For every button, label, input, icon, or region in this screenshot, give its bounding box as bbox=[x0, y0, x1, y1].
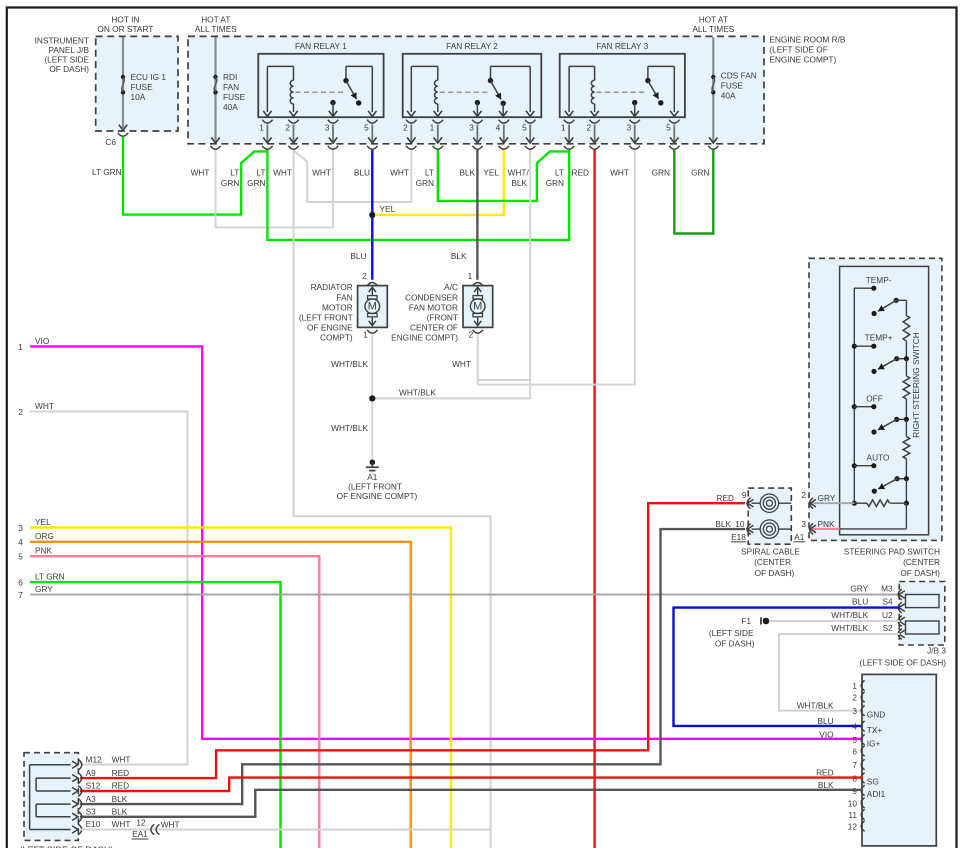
wire BLU S4 to TX+ pin4 bbox=[674, 608, 900, 726]
switch arm TEMP- bbox=[894, 298, 899, 303]
svg-text:(LEFT SIDE OF DASH): (LEFT SIDE OF DASH) bbox=[859, 658, 946, 668]
svg-text:M3: M3 bbox=[881, 583, 893, 593]
pin 3 stub at x=333 bbox=[328, 120, 338, 123]
svg-text:WHT/BLK: WHT/BLK bbox=[331, 359, 368, 369]
svg-text:GRN: GRN bbox=[221, 178, 239, 188]
svg-text:J/B 3: J/B 3 bbox=[927, 646, 946, 656]
pin 1 stub at x=267.4 bbox=[262, 120, 272, 123]
svg-text:WHT: WHT bbox=[273, 168, 292, 178]
wire WHT A/C pin2 branch to relay2 pin5 vertical bbox=[478, 379, 531, 381]
pin 2 stub at x=594.6 bbox=[589, 120, 599, 123]
svg-text:INSTRUMENT: INSTRUMENT bbox=[35, 36, 89, 46]
svg-text:GRY: GRY bbox=[35, 584, 53, 594]
connector M12 bbox=[72, 761, 78, 768]
svg-text:LT GRN: LT GRN bbox=[35, 572, 65, 582]
svg-text:40A: 40A bbox=[223, 102, 238, 112]
svg-text:PNK: PNK bbox=[818, 519, 836, 529]
pin 7 of ECU connector bbox=[861, 759, 864, 769]
svg-text:VIO: VIO bbox=[819, 729, 834, 739]
wire VIO 1 to IG+ pin5 bbox=[30, 346, 863, 738]
connector A3 bbox=[72, 801, 78, 808]
svg-text:2: 2 bbox=[285, 122, 290, 132]
svg-text:TEMP+: TEMP+ bbox=[865, 332, 893, 342]
pin 5 stub at x=372.3 bbox=[367, 120, 377, 123]
connector 3 PNK on steering box bbox=[810, 525, 816, 533]
wire PNK steering connector 3 bbox=[812, 528, 840, 530]
pin arrow CDS to engine box edge bbox=[709, 137, 717, 143]
pin 2 stub at x=411.3 bbox=[406, 120, 416, 123]
connector S12 bbox=[72, 787, 78, 794]
steering pad switch outer box bbox=[809, 258, 942, 540]
switch arm AUTO bbox=[895, 476, 900, 481]
svg-text:BLK: BLK bbox=[112, 807, 128, 817]
svg-text:3: 3 bbox=[18, 523, 23, 533]
svg-text:A3: A3 bbox=[86, 794, 97, 804]
svg-text:YEL: YEL bbox=[380, 204, 396, 214]
svg-text:ECU IG 1: ECU IG 1 bbox=[131, 72, 167, 82]
wire RED relay3 pin2 down off page bbox=[593, 150, 595, 848]
svg-text:1: 1 bbox=[430, 122, 435, 132]
pin 3 stub at x=634.7 bbox=[630, 120, 640, 123]
pin 1 stub at x=569.1 bbox=[564, 120, 574, 123]
svg-text:RED: RED bbox=[716, 493, 734, 503]
wire WHT/BLK relay2 pin5 to motor ground junction bbox=[375, 150, 530, 398]
pin 12 of ECU connector bbox=[861, 821, 864, 831]
wire BLK relay2 pin3 to A/C condenser fan motor bbox=[476, 150, 478, 280]
wire RED S12 to SG pin8 bbox=[80, 778, 863, 791]
svg-text:FAN RELAY 1: FAN RELAY 1 bbox=[295, 41, 347, 51]
svg-text:GRN: GRN bbox=[691, 168, 709, 178]
wire E10 WHT to EA1 and relay1 pin2 route bbox=[80, 829, 491, 831]
switch rail bbox=[853, 288, 855, 503]
noise filter F1 bbox=[763, 618, 770, 625]
pin arrow RDI to engine box edge bbox=[211, 137, 219, 143]
fuse ECU IG 1 10A bbox=[121, 75, 125, 79]
TEMP+ contact row bbox=[852, 344, 857, 349]
svg-text:TX+: TX+ bbox=[867, 725, 883, 735]
wire HOT IN feed bbox=[122, 37, 124, 128]
svg-text:ENGINE ROOM R/B: ENGINE ROOM R/B bbox=[769, 35, 846, 45]
pin 5 stub at x=530.2 bbox=[525, 120, 535, 123]
svg-text:6: 6 bbox=[18, 578, 23, 588]
svg-text:PNK: PNK bbox=[35, 546, 53, 556]
svg-text:BLK: BLK bbox=[112, 794, 128, 804]
PNK row inside box to chain bbox=[840, 528, 907, 530]
wire WHT from RDI fuse to relay1 pin3 bbox=[216, 150, 333, 227]
svg-text:ALL TIMES: ALL TIMES bbox=[195, 24, 237, 34]
svg-text:LT: LT bbox=[555, 168, 564, 178]
wire WHT/BLK S2 to GND pin3 bbox=[779, 634, 900, 711]
bottom row with resistor to GRY connector bbox=[852, 501, 857, 506]
svg-text:CENTER OF: CENTER OF bbox=[410, 323, 458, 333]
wire LT GRN relay1 pin1 to relay3 pin1 bbox=[267, 150, 569, 240]
svg-text:3: 3 bbox=[852, 706, 857, 716]
relay FAN RELAY 1 outline bbox=[258, 54, 383, 117]
wire YEL 3 down off page bbox=[30, 528, 451, 848]
relay FAN RELAY 1 dashed link bbox=[296, 91, 345, 93]
svg-text:1: 1 bbox=[18, 342, 23, 352]
svg-text:2: 2 bbox=[403, 122, 408, 132]
bus bar left (M12-E10) bbox=[29, 765, 31, 830]
spiral cable box bbox=[748, 488, 791, 544]
relay FAN RELAY 3 switch bbox=[647, 66, 649, 80]
svg-text:(LEFT FRONT: (LEFT FRONT bbox=[348, 481, 402, 491]
svg-text:S12: S12 bbox=[86, 781, 101, 791]
TEMP- contact row bbox=[854, 287, 874, 289]
svg-text:BLU: BLU bbox=[817, 716, 833, 726]
svg-text:RIGHT STEERING SWITCH: RIGHT STEERING SWITCH bbox=[911, 332, 921, 437]
wire WHT relay3 pin3 to A/C motor branch bbox=[478, 150, 635, 385]
bus bar A3-S3 bbox=[35, 804, 37, 817]
connector S3 bbox=[72, 813, 78, 820]
svg-text:LT: LT bbox=[425, 168, 434, 178]
svg-text:FUSE: FUSE bbox=[223, 92, 246, 102]
switch arm OFF bbox=[894, 417, 899, 422]
relay FAN RELAY 1 fixed contact bbox=[330, 100, 335, 105]
svg-text:WHT/BLK: WHT/BLK bbox=[399, 387, 436, 397]
engine room R/B box bbox=[188, 36, 764, 143]
svg-text:OF DASH): OF DASH) bbox=[755, 568, 795, 578]
svg-text:VIO: VIO bbox=[35, 336, 50, 346]
svg-text:6: 6 bbox=[852, 746, 857, 756]
switch arm TEMP+ bbox=[894, 356, 899, 361]
junction dot BLU/YEL bbox=[369, 212, 375, 218]
resistor chain bbox=[905, 300, 907, 315]
relay/junction box (bottom left) bbox=[24, 753, 78, 841]
svg-text:CDS FAN: CDS FAN bbox=[721, 71, 757, 81]
svg-text:GND: GND bbox=[867, 709, 885, 719]
svg-text:OFF: OFF bbox=[866, 394, 883, 404]
svg-text:WHT: WHT bbox=[161, 819, 180, 829]
svg-text:7: 7 bbox=[18, 590, 23, 600]
svg-text:BLU: BLU bbox=[350, 251, 366, 261]
svg-text:12: 12 bbox=[136, 818, 146, 828]
svg-text:(LEFT SIDE OF: (LEFT SIDE OF bbox=[769, 45, 827, 55]
wire LT GRN 6 down off page bbox=[30, 582, 281, 848]
svg-text:M12: M12 bbox=[86, 755, 103, 765]
svg-text:OF DASH): OF DASH) bbox=[715, 639, 755, 649]
svg-text:5: 5 bbox=[852, 735, 857, 745]
J/B3 bus bar U2-S2 bbox=[906, 621, 940, 634]
svg-text:ORG: ORG bbox=[35, 531, 54, 541]
connector 9 on spiral cable bbox=[748, 499, 754, 507]
svg-text:FAN RELAY 3: FAN RELAY 3 bbox=[596, 41, 648, 51]
svg-text:IG+: IG+ bbox=[867, 738, 881, 748]
svg-text:U2: U2 bbox=[882, 610, 893, 620]
svg-text:S2: S2 bbox=[882, 623, 893, 633]
wire WHT relay1 pin2 down to EA1 route bbox=[294, 150, 491, 848]
svg-text:10A: 10A bbox=[131, 92, 146, 102]
svg-text:4: 4 bbox=[852, 722, 857, 732]
relay FAN RELAY 2 pin4 contact line bbox=[502, 103, 504, 115]
svg-text:FUSE: FUSE bbox=[131, 82, 154, 92]
svg-text:E10: E10 bbox=[86, 819, 101, 829]
svg-text:5: 5 bbox=[18, 552, 23, 562]
wire BLK S3... A3 to spiral 10 bbox=[80, 529, 745, 804]
svg-text:ENGINE COMPT): ENGINE COMPT) bbox=[769, 55, 836, 65]
svg-text:WHT: WHT bbox=[312, 168, 331, 178]
svg-text:5: 5 bbox=[364, 122, 369, 132]
svg-text:3: 3 bbox=[325, 122, 330, 132]
ECU connector box (bottom right) bbox=[862, 674, 936, 846]
svg-text:4: 4 bbox=[18, 537, 23, 547]
wire GRY 7 to J/B3 M3 bbox=[30, 594, 900, 596]
svg-text:1: 1 bbox=[852, 681, 857, 691]
wire GRN relay3 pin5 to CDS fuse bbox=[674, 150, 713, 234]
svg-text:RADIATOR: RADIATOR bbox=[311, 282, 353, 292]
svg-text:4: 4 bbox=[496, 122, 501, 132]
svg-text:WHT: WHT bbox=[191, 168, 210, 178]
svg-text:ALL TIMES: ALL TIMES bbox=[692, 24, 734, 34]
svg-text:ENGINE COMPT): ENGINE COMPT) bbox=[391, 333, 458, 343]
wire HOT AT ALL TIMES feed (CDS) bbox=[712, 37, 714, 142]
svg-text:2: 2 bbox=[586, 122, 591, 132]
pin 5 of ECU connector bbox=[861, 735, 864, 745]
svg-text:FUSE: FUSE bbox=[721, 81, 744, 91]
bus bar A9-S12 bbox=[35, 778, 37, 791]
relay FAN RELAY 3 coil bbox=[568, 66, 570, 112]
svg-text:WHT/BLK: WHT/BLK bbox=[331, 423, 368, 433]
svg-text:C6: C6 bbox=[105, 137, 116, 147]
connector E10 bbox=[72, 826, 78, 833]
pin 3 stub at x=477.4 bbox=[472, 120, 482, 123]
svg-text:1: 1 bbox=[259, 122, 264, 132]
wire WHT/BLK F1 to U2 bbox=[769, 620, 900, 622]
svg-text:BLK: BLK bbox=[715, 519, 731, 529]
pin 6 of ECU connector bbox=[861, 746, 864, 756]
wire ORG 4 down off page bbox=[30, 542, 411, 848]
svg-text:WHT/BLK: WHT/BLK bbox=[831, 610, 868, 620]
svg-text:RED: RED bbox=[112, 768, 130, 778]
svg-text:(LEFT SIDE: (LEFT SIDE bbox=[709, 628, 754, 638]
svg-text:GRY: GRY bbox=[818, 493, 836, 503]
svg-text:FAN: FAN bbox=[223, 82, 239, 92]
pin 11 of ECU connector bbox=[861, 809, 864, 819]
svg-text:BLU: BLU bbox=[852, 596, 868, 606]
fan motor at x=477.7 bbox=[473, 283, 483, 286]
svg-text:WHT: WHT bbox=[390, 168, 409, 178]
J/B 3 box bbox=[899, 582, 945, 646]
fuse RDI FAN 40A bbox=[213, 75, 217, 79]
wire LT GRN relay2 pin1 to relay3 pin1 bbox=[438, 150, 569, 201]
svg-text:GRN: GRN bbox=[546, 178, 564, 188]
svg-text:EA1: EA1 bbox=[132, 829, 148, 839]
svg-text:WHT: WHT bbox=[452, 359, 471, 369]
wire LT GRN from C6 to relay1 pin1 bbox=[123, 137, 267, 215]
wire WHT/BLK radiator pin1 to ground junction bbox=[371, 335, 373, 460]
svg-text:WHT: WHT bbox=[35, 401, 54, 411]
svg-text:AUTO: AUTO bbox=[867, 453, 890, 463]
wire RED A9 to spiral 9 bbox=[80, 503, 745, 778]
svg-text:ON OR START: ON OR START bbox=[97, 24, 153, 34]
pin 10 of ECU connector bbox=[861, 798, 864, 808]
svg-text:1: 1 bbox=[468, 271, 473, 281]
svg-text:COMPT): COMPT) bbox=[320, 333, 353, 343]
svg-text:ADI1: ADI1 bbox=[867, 789, 886, 799]
wire WHT 2 to M12 bbox=[30, 412, 188, 765]
svg-text:10: 10 bbox=[735, 519, 745, 529]
svg-text:9: 9 bbox=[742, 490, 747, 500]
relay FAN RELAY 3 dashed link bbox=[597, 91, 646, 93]
svg-text:RED: RED bbox=[816, 768, 834, 778]
pin 9 of ECU connector bbox=[861, 785, 864, 795]
svg-text:5: 5 bbox=[666, 122, 671, 132]
relay FAN RELAY 3 outline bbox=[560, 54, 685, 117]
svg-text:GRY: GRY bbox=[850, 583, 868, 593]
svg-text:40A: 40A bbox=[721, 91, 736, 101]
ground A1 bbox=[370, 460, 376, 466]
svg-text:STEERING PAD SWITCH: STEERING PAD SWITCH bbox=[844, 546, 940, 556]
svg-text:RED: RED bbox=[571, 168, 589, 178]
svg-text:5: 5 bbox=[522, 122, 527, 132]
pin 8 of ECU connector bbox=[861, 773, 864, 783]
svg-text:SPIRAL CABLE: SPIRAL CABLE bbox=[741, 546, 800, 556]
svg-text:OF DASH): OF DASH) bbox=[49, 64, 89, 74]
svg-text:A1: A1 bbox=[794, 532, 805, 542]
pin 5 stub at x=674.3 bbox=[669, 120, 679, 123]
relay FAN RELAY 1 coil bbox=[266, 66, 268, 112]
svg-text:WHT: WHT bbox=[112, 755, 131, 765]
svg-text:A/C: A/C bbox=[444, 282, 458, 292]
svg-text:GRN: GRN bbox=[416, 178, 434, 188]
svg-text:GRN: GRN bbox=[652, 168, 670, 178]
wire WHT A/C pin2 down bbox=[477, 335, 479, 385]
svg-text:MOTOR: MOTOR bbox=[322, 302, 353, 312]
spiral symbol pin 10 bbox=[766, 526, 772, 532]
relay FAN RELAY 1 switch bbox=[345, 66, 347, 80]
svg-text:OF DASH): OF DASH) bbox=[900, 568, 940, 578]
relay FAN RELAY 2 outline bbox=[403, 54, 542, 117]
svg-text:RDI: RDI bbox=[223, 72, 237, 82]
wire HOT AT ALL TIMES feed (RDI) bbox=[214, 37, 216, 142]
svg-text:TEMP-: TEMP- bbox=[866, 275, 892, 285]
svg-text:LT: LT bbox=[256, 168, 265, 178]
instrument panel J/B box bbox=[96, 36, 178, 131]
pin 4 stub at x=503.8 bbox=[499, 120, 509, 123]
svg-text:FAN: FAN bbox=[337, 292, 353, 302]
svg-text:OF ENGINE COMPT): OF ENGINE COMPT) bbox=[337, 491, 418, 501]
svg-text:FAN RELAY 2: FAN RELAY 2 bbox=[446, 41, 498, 51]
fan motor at x=372.3 bbox=[367, 283, 377, 286]
connector C6 bbox=[118, 133, 128, 136]
relay FAN RELAY 2 switch bbox=[490, 66, 492, 80]
svg-text:OF ENGINE: OF ENGINE bbox=[307, 323, 353, 333]
steering pad switch inner box bbox=[840, 266, 929, 534]
svg-text:(LEFT SIDE: (LEFT SIDE bbox=[44, 55, 89, 65]
pin 1 stub at x=437.8 bbox=[433, 120, 443, 123]
svg-text:RED: RED bbox=[112, 781, 130, 791]
svg-text:LT: LT bbox=[230, 168, 239, 178]
svg-text:2: 2 bbox=[801, 490, 806, 500]
connector M3 on J/B3 bbox=[899, 591, 905, 599]
svg-text:3: 3 bbox=[469, 122, 474, 132]
connector U2 on J/B3 bbox=[899, 617, 905, 625]
svg-text:WHT/: WHT/ bbox=[508, 168, 530, 178]
connector S2 on J/B3 bbox=[899, 630, 905, 638]
svg-text:GRN: GRN bbox=[247, 178, 265, 188]
svg-text:E18: E18 bbox=[731, 532, 746, 542]
svg-text:S3: S3 bbox=[86, 807, 97, 817]
svg-text:YEL: YEL bbox=[35, 517, 51, 527]
fuse CDS FAN 40A bbox=[711, 75, 715, 79]
svg-text:7: 7 bbox=[852, 760, 857, 770]
pin 3 of ECU connector bbox=[861, 706, 864, 716]
OFF contact row bbox=[852, 404, 857, 409]
relay FAN RELAY 2 coil bbox=[410, 66, 412, 112]
svg-text:A9: A9 bbox=[86, 768, 97, 778]
svg-text:SG: SG bbox=[867, 777, 879, 787]
svg-text:YEL: YEL bbox=[483, 168, 499, 178]
AUTO contact row bbox=[852, 463, 857, 468]
svg-text:(FRONT: (FRONT bbox=[427, 313, 458, 323]
wire BLU relay1 pin5 to radiator fan motor bbox=[371, 150, 373, 280]
svg-text:2: 2 bbox=[362, 271, 367, 281]
svg-text:BLK: BLK bbox=[459, 168, 475, 178]
svg-text:BLU: BLU bbox=[354, 168, 370, 178]
svg-text:BLK: BLK bbox=[511, 178, 527, 188]
svg-text:S4: S4 bbox=[882, 596, 893, 606]
pin arrow into C6 bbox=[119, 125, 127, 131]
svg-text:M: M bbox=[473, 301, 482, 313]
svg-text:WHT/BLK: WHT/BLK bbox=[797, 700, 834, 710]
svg-text:2: 2 bbox=[18, 407, 23, 417]
junction dot WHT/BLK bbox=[369, 395, 375, 401]
relay FAN RELAY 3 fixed contact bbox=[632, 100, 637, 105]
connector A9 bbox=[72, 775, 78, 782]
svg-text:WHT: WHT bbox=[610, 168, 629, 178]
svg-text:(CENTER: (CENTER bbox=[754, 557, 791, 567]
svg-text:(LEFT FRONT: (LEFT FRONT bbox=[299, 313, 353, 323]
svg-text:F1: F1 bbox=[741, 616, 751, 626]
pin 2 stub at x=293.5 bbox=[288, 120, 298, 123]
svg-text:WHT: WHT bbox=[112, 819, 131, 829]
svg-text:PANEL J/B: PANEL J/B bbox=[48, 45, 89, 55]
svg-text:LT GRN: LT GRN bbox=[92, 167, 122, 177]
svg-text:2: 2 bbox=[469, 330, 474, 340]
relay FAN RELAY 2 fixed contact bbox=[475, 100, 480, 105]
spiral symbol pin 9 bbox=[766, 500, 772, 506]
svg-text:1: 1 bbox=[561, 122, 566, 132]
svg-text:11: 11 bbox=[848, 810, 857, 820]
svg-text:3: 3 bbox=[801, 519, 806, 529]
svg-text:BLK: BLK bbox=[451, 251, 467, 261]
wire WHT relay1 pin2 jog to relay2 pin2 bbox=[294, 150, 412, 202]
J/B3 bus bar M3-S4 bbox=[906, 595, 940, 608]
connector 2 GRY on steering box bbox=[810, 499, 816, 507]
wire YEL junction to relay2 pin4 bbox=[375, 150, 504, 215]
svg-text:10: 10 bbox=[848, 798, 858, 808]
svg-text:1: 1 bbox=[363, 330, 368, 340]
svg-text:FAN MOTOR: FAN MOTOR bbox=[409, 302, 458, 312]
svg-text:3: 3 bbox=[627, 122, 632, 132]
svg-text:2: 2 bbox=[852, 693, 857, 703]
connector 10 on spiral cable bbox=[748, 525, 754, 533]
svg-text:M: M bbox=[368, 301, 377, 313]
wire PNK 5 down off page bbox=[30, 556, 319, 848]
pin 2 of ECU connector bbox=[861, 692, 864, 702]
svg-text:(CENTER: (CENTER bbox=[903, 557, 940, 567]
pin 4 of ECU connector bbox=[861, 721, 864, 731]
svg-text:12: 12 bbox=[848, 822, 858, 832]
connector S4 on J/B3 bbox=[899, 604, 905, 612]
svg-text:CONDENSER: CONDENSER bbox=[405, 292, 458, 302]
relay FAN RELAY 2 dashed link bbox=[440, 91, 489, 93]
pin 1 of ECU connector bbox=[861, 680, 864, 690]
wire BLK S3 to ADI1 pin9 bbox=[80, 790, 863, 817]
svg-text:WHT/BLK: WHT/BLK bbox=[831, 623, 868, 633]
